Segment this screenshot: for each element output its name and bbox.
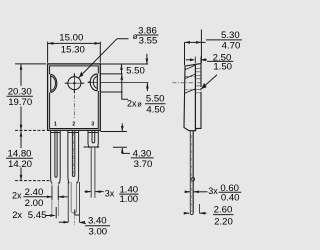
svg-text:2: 2 xyxy=(72,121,75,127)
svg-text:14.20: 14.20 xyxy=(8,159,32,170)
lead (side view) xyxy=(190,131,194,215)
svg-text:2x: 2x xyxy=(127,98,137,108)
dimension 5.30/4.70 body thickness xyxy=(185,30,206,66)
svg-text:3x: 3x xyxy=(208,186,218,196)
svg-text:15.00: 15.00 xyxy=(59,33,83,44)
svg-text:1: 1 xyxy=(54,121,57,127)
svg-text:ø: ø xyxy=(133,32,138,41)
dimension 3x 0.60/0.40 lead thickness xyxy=(185,191,208,193)
svg-text:3.00: 3.00 xyxy=(88,227,107,238)
right side notch with centerline ticks xyxy=(88,74,98,91)
svg-text:2.00: 2.00 xyxy=(25,198,44,209)
svg-text:1.50: 1.50 xyxy=(213,62,232,73)
pin 2 vertical centerline (dash-dot) xyxy=(73,95,75,119)
svg-text:2.20: 2.20 xyxy=(214,217,233,228)
dimension 2.60/2.20 lead offset from tab face xyxy=(184,204,207,213)
lead pin 2 (wide section, slot and narrow tip) xyxy=(68,131,79,214)
leader from 1.50 to tab face xyxy=(201,75,217,89)
hole centerline through side view (dash-dot) xyxy=(173,82,203,84)
dimension 3.40/3.00 center lead width xyxy=(59,182,86,224)
lead centerline (side view, dash-dot) xyxy=(191,135,193,212)
package body outline (front view, TO-247) xyxy=(48,64,101,130)
lead shoulder lines under body xyxy=(51,132,99,134)
svg-text:0.40: 0.40 xyxy=(221,193,240,204)
package body outline (side view) xyxy=(184,64,201,131)
svg-text:3x: 3x xyxy=(105,188,115,198)
svg-text:2x: 2x xyxy=(12,190,22,200)
left side notch xyxy=(51,74,57,92)
svg-text:5.50: 5.50 xyxy=(126,66,145,77)
svg-text:3.70: 3.70 xyxy=(134,159,153,170)
svg-text:ø: ø xyxy=(137,99,142,108)
svg-text:5.50: 5.50 xyxy=(146,94,165,105)
svg-text:4.70: 4.70 xyxy=(222,40,241,51)
mounting hole with crosshair xyxy=(65,73,85,93)
svg-text:19.70: 19.70 xyxy=(8,97,32,108)
dimension 15.00/15.30 package width xyxy=(48,42,101,63)
svg-text:3.40: 3.40 xyxy=(88,215,107,226)
dimension 5.50 hole center from top and notch dia 2x 5.50/4.50 xyxy=(100,54,148,99)
svg-text:5.45: 5.45 xyxy=(28,210,47,221)
dimension 14.80/14.20 wide lead length xyxy=(15,131,51,181)
svg-text:2.60: 2.60 xyxy=(214,205,233,216)
dimension 3x 1.40/1.00 narrow lead width xyxy=(85,191,104,193)
hidden mounting hole lines (side view) xyxy=(186,77,196,90)
pin number labels 1 2 3 xyxy=(54,121,95,127)
lead pin 1 (wide section, slot and narrow tip) xyxy=(51,131,61,219)
dimension 4.30/3.70 wide section of pin 3 xyxy=(84,123,131,153)
dimension 20.30/19.70 body height xyxy=(15,64,46,130)
leader and value for hole diameter 3.86/3.55 xyxy=(79,39,129,78)
svg-text:4.50: 4.50 xyxy=(146,104,165,115)
dimension 2.50/1.50 mounting tab thickness xyxy=(186,57,207,64)
lead pin 3 (short wide section and narrow tip) xyxy=(88,131,98,198)
svg-text:15.30: 15.30 xyxy=(61,45,85,56)
svg-text:3.55: 3.55 xyxy=(139,35,158,46)
svg-text:3: 3 xyxy=(91,121,94,127)
svg-text:1.00: 1.00 xyxy=(119,194,138,205)
svg-text:2x: 2x xyxy=(12,209,22,220)
